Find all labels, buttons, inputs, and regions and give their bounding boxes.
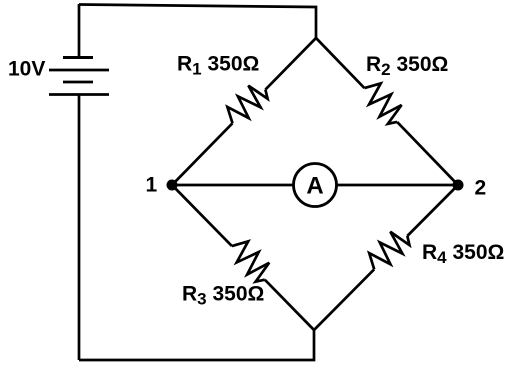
label node 1 bbox=[146, 174, 158, 197]
svg-text:R3 350Ω: R3 350Ω bbox=[182, 283, 264, 309]
svg-text:R2 350Ω: R2 350Ω bbox=[366, 53, 448, 79]
wire left upper (battery to top wire) bbox=[78, 4, 81, 58]
wire node1 to ammeter bbox=[172, 184, 293, 187]
label R2 350ohm bbox=[366, 53, 448, 79]
node 2 junction dot bbox=[453, 180, 464, 191]
label node 2 bbox=[475, 177, 487, 200]
svg-text:10V: 10V bbox=[8, 58, 45, 81]
resistor R2 (arm top vertex to node2) bbox=[316, 38, 458, 185]
resistor R3 (arm node1 to bottom vertex) bbox=[172, 185, 314, 330]
svg-text:1: 1 bbox=[146, 174, 158, 197]
label 10V bbox=[8, 58, 45, 81]
node 1 junction dot bbox=[167, 180, 178, 191]
ammeter A bbox=[294, 164, 337, 207]
resistor R4 (arm bottom vertex to node2) bbox=[314, 185, 458, 330]
resistor R1 (arm node1 to top vertex) bbox=[172, 38, 316, 185]
svg-text:R1 350Ω: R1 350Ω bbox=[177, 53, 259, 79]
label R4 350ohm bbox=[422, 241, 504, 267]
svg-text:A: A bbox=[306, 173, 323, 200]
svg-text:R4 350Ω: R4 350Ω bbox=[422, 241, 504, 267]
wire top bbox=[79, 5, 316, 39]
label R3 350ohm bbox=[182, 283, 264, 309]
label R1 350ohm bbox=[177, 53, 259, 79]
battery B1 10V bbox=[49, 58, 109, 95]
wire left lower (battery to bottom wire) bbox=[78, 95, 81, 361]
wire bottom bbox=[79, 330, 314, 360]
wire ammeter to node2 bbox=[337, 184, 458, 187]
svg-text:2: 2 bbox=[475, 177, 487, 200]
